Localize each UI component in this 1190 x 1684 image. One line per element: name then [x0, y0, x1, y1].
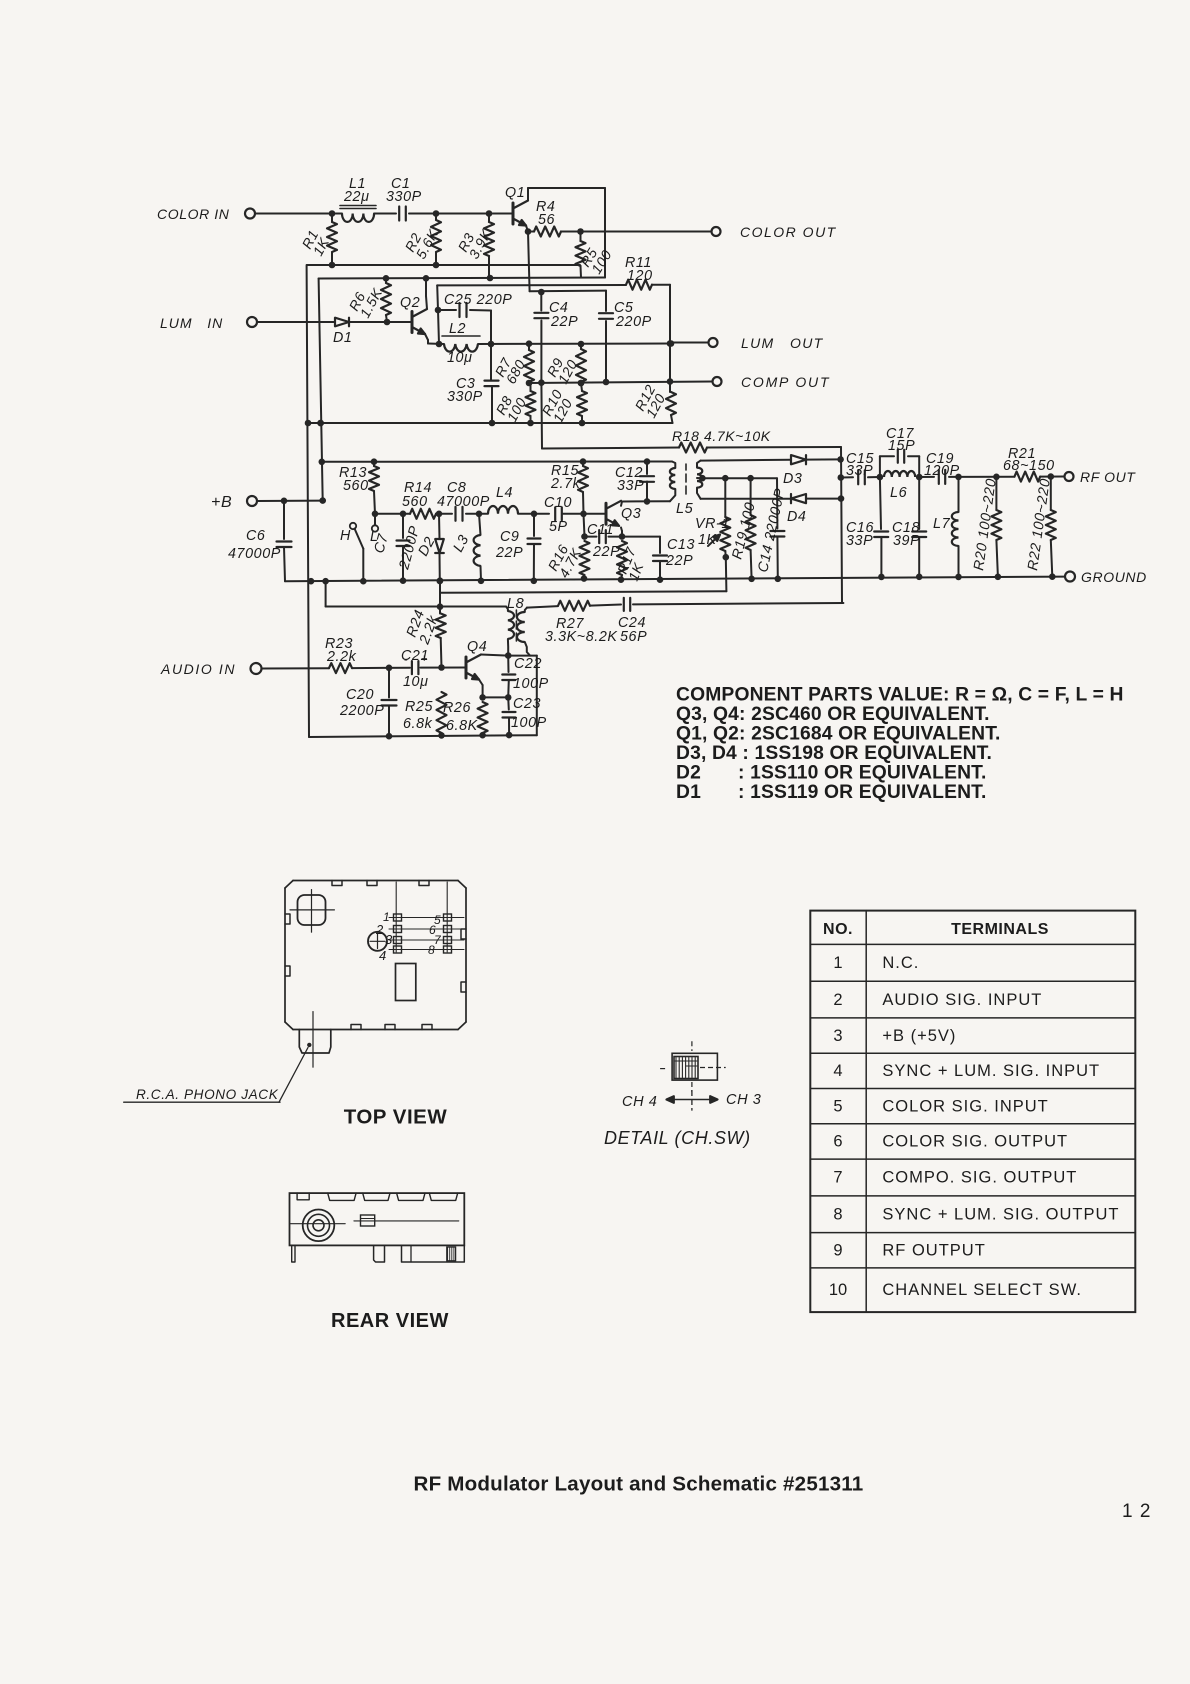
crystal crosshair — [290, 909, 334, 911]
svg-text:D1: D1 — [676, 782, 701, 803]
svg-text:8: 8 — [428, 943, 435, 957]
svg-text:N.C.: N.C. — [882, 954, 919, 972]
terminal COLOR IN — [245, 209, 255, 219]
svg-text:Q1: Q1 — [505, 185, 525, 201]
resistor R12 — [666, 392, 676, 415]
svg-text:D4: D4 — [787, 509, 806, 525]
svg-text:2: 2 — [833, 991, 842, 1009]
svg-text:COLOR OUT: COLOR OUT — [740, 224, 837, 240]
wire C4 node to R18 — [540, 383, 543, 449]
rear view center dash line — [354, 1220, 459, 1222]
capacitor C24 — [623, 598, 625, 611]
resistor R11 — [626, 280, 652, 290]
svg-text:22P: 22P — [495, 545, 523, 561]
node — [877, 474, 884, 481]
wire — [633, 603, 843, 604]
resistor R20 — [995, 477, 997, 510]
transformer L8 secondary — [525, 608, 527, 612]
svg-text:C13: C13 — [667, 537, 695, 553]
svg-text:AUDIO SIG. INPUT: AUDIO SIG. INPUT — [882, 991, 1042, 1009]
wire — [1040, 476, 1064, 478]
wire lum bias rail — [319, 278, 605, 279]
svg-text:33P: 33P — [846, 533, 873, 549]
pin pads column 5-8 — [444, 914, 452, 921]
component rectangle — [396, 964, 416, 1001]
svg-text:LUM OUT: LUM OUT — [741, 335, 824, 351]
resistor R24 — [439, 581, 441, 614]
svg-text:RF OUTPUT: RF OUTPUT — [882, 1242, 985, 1260]
svg-text:D3: D3 — [783, 471, 802, 487]
capacitor C22 — [507, 656, 509, 672]
wire — [478, 343, 671, 346]
wire top box edge — [528, 187, 605, 189]
node R13 bottom — [372, 511, 379, 518]
svg-text:AUDIO IN: AUDIO IN — [160, 661, 236, 677]
capacitor C12 — [646, 462, 648, 474]
resistor R3 — [488, 214, 490, 223]
resistor R19 — [750, 478, 752, 515]
resistor R15 — [582, 462, 584, 466]
svg-text:RF Modulator Layout and Schema: RF Modulator Layout and Schematic #25131… — [414, 1473, 864, 1496]
detail switch knob hatched — [674, 1057, 698, 1079]
diode D4 — [791, 494, 806, 503]
channel switch circle — [368, 932, 387, 951]
svg-text:C10: C10 — [544, 495, 572, 511]
capacitor C4 — [540, 292, 542, 311]
svg-text:120P: 120P — [924, 463, 960, 479]
wire audio rail — [325, 581, 327, 606]
svg-text:CH 3: CH 3 — [726, 1092, 761, 1108]
wire emitter line to LUM OUT — [428, 343, 444, 346]
svg-text:REAR VIEW: REAR VIEW — [331, 1310, 449, 1332]
inductor L1 — [342, 214, 374, 222]
svg-text:L5: L5 — [676, 501, 694, 517]
wire ground rail — [285, 577, 1065, 582]
svg-text:R.C.A. PHONO JACK: R.C.A. PHONO JACK — [136, 1087, 279, 1102]
svg-text:1 2: 1 2 — [1122, 1501, 1151, 1522]
wire VR line — [702, 477, 777, 479]
rear view top slots — [297, 1193, 309, 1200]
wire — [518, 513, 549, 515]
drawing rear view body — [290, 1193, 465, 1245]
svg-text:100P: 100P — [513, 676, 549, 692]
wire D3 branch — [701, 459, 791, 462]
potentiometer VR-1 — [724, 478, 726, 517]
svg-text:COMPO. SIG. OUTPUT: COMPO. SIG. OUTPUT — [882, 1169, 1077, 1187]
capacitor C25 bypass — [438, 310, 439, 344]
capacitor C16 — [880, 477, 881, 529]
wire Q3 emitter — [621, 528, 622, 532]
inductor L2 — [444, 344, 478, 352]
svg-text:22P: 22P — [665, 553, 693, 569]
svg-text:Q4: Q4 — [467, 639, 487, 655]
svg-text:6: 6 — [833, 1133, 842, 1151]
resistor R13 — [373, 462, 375, 466]
svg-text:2.2k: 2.2k — [326, 649, 357, 665]
diode D1 — [335, 318, 349, 327]
rear view crosshair — [291, 1223, 346, 1225]
wire Q2 emitter — [425, 334, 428, 340]
svg-text:5.6K: 5.6K — [413, 226, 442, 261]
svg-text:560: 560 — [402, 494, 428, 510]
node — [436, 511, 443, 518]
svg-text:VR-1: VR-1 — [695, 516, 730, 532]
diode D3 — [791, 455, 806, 464]
svg-text:: 1SS119 OR EQUIVALENT.: : 1SS119 OR EQUIVALENT. — [738, 782, 986, 803]
svg-text:330P: 330P — [386, 189, 422, 205]
switch channel select H-L — [350, 523, 356, 529]
svg-text:L8: L8 — [507, 596, 524, 612]
wire — [262, 667, 330, 669]
detail arrow line — [667, 1099, 718, 1101]
rca phono jack top view — [299, 1030, 331, 1054]
transformer L5 primary — [672, 462, 675, 469]
svg-text:5: 5 — [833, 1097, 842, 1115]
svg-text:6.8k: 6.8k — [403, 716, 433, 732]
rear view rca jack circles — [303, 1210, 335, 1242]
wire audio ground rail — [309, 735, 537, 737]
wire — [562, 513, 606, 515]
wire left return vertical — [307, 265, 309, 737]
svg-text:COMPONENT PARTS VALUE: R = Ω,: COMPONENT PARTS VALUE: R = Ω, C = F, L =… — [676, 685, 1124, 706]
svg-text:R25: R25 — [405, 699, 433, 715]
svg-text:56: 56 — [538, 212, 555, 228]
svg-text:COLOR SIG. OUTPUT: COLOR SIG. OUTPUT — [882, 1133, 1068, 1151]
svg-text:7: 7 — [833, 1169, 842, 1187]
rear view small detail — [361, 1215, 375, 1226]
svg-text:1K: 1K — [698, 532, 718, 548]
terminal AUDIO IN — [251, 663, 262, 674]
capacitor C1 — [398, 207, 400, 221]
svg-text:C22: C22 — [514, 656, 542, 672]
terminal LUM IN — [247, 317, 257, 327]
wire — [349, 321, 412, 323]
svg-text:COLOR SIG. INPUT: COLOR SIG. INPUT — [882, 1097, 1048, 1115]
svg-text:22P: 22P — [550, 314, 578, 330]
svg-text:47000P: 47000P — [228, 546, 281, 562]
wire — [409, 213, 513, 215]
wire — [806, 458, 841, 460]
transformer L8 primary — [506, 607, 508, 612]
crystal component square — [298, 895, 326, 925]
detail centerlines dashed — [691, 1041, 693, 1051]
svg-text:C21: C21 — [401, 648, 429, 664]
wire — [652, 284, 670, 286]
diode D2 — [438, 514, 441, 539]
svg-text:2200P: 2200P — [339, 703, 384, 719]
svg-text:GROUND: GROUND — [1081, 569, 1147, 585]
svg-text:C25 220P: C25 220P — [444, 292, 512, 308]
terminal COLOR OUT — [712, 227, 721, 236]
wire Q1 emitter drop — [528, 232, 530, 292]
svg-text:DETAIL (CH.SW): DETAIL (CH.SW) — [604, 1128, 751, 1148]
svg-text:H: H — [340, 528, 351, 544]
svg-text:39P: 39P — [893, 533, 920, 549]
wire — [257, 321, 335, 323]
svg-text:L7: L7 — [933, 516, 951, 532]
svg-text:2.7k: 2.7k — [550, 476, 581, 492]
svg-text:22P: 22P — [592, 544, 620, 560]
svg-text:33P: 33P — [846, 463, 873, 479]
svg-text:R26: R26 — [443, 700, 471, 716]
transformer L5 secondary — [697, 461, 701, 468]
node — [916, 474, 923, 481]
svg-text:15P: 15P — [888, 438, 915, 454]
svg-text:8: 8 — [833, 1206, 842, 1224]
wire Q2 collector — [426, 296, 427, 309]
wire — [374, 213, 396, 215]
svg-text:3.3K~8.2K: 3.3K~8.2K — [545, 629, 618, 645]
svg-text:9: 9 — [833, 1242, 842, 1260]
svg-text:560: 560 — [343, 478, 369, 494]
inductor L7 — [958, 477, 960, 512]
wire R27 line — [527, 606, 558, 608]
capacitor C6 — [283, 501, 285, 539]
svg-text:C6: C6 — [246, 528, 265, 544]
wire +B distribution rail — [322, 461, 672, 463]
drawing module outline top view — [293, 880, 458, 882]
wire — [508, 655, 537, 657]
terminal +B — [247, 496, 257, 506]
pin pads column 1-4 — [394, 914, 402, 921]
rear view bottom tabs — [374, 1245, 385, 1262]
wire — [590, 605, 621, 606]
svg-text:RF OUT: RF OUT — [1080, 469, 1136, 485]
wire R14 line — [375, 513, 410, 515]
svg-text:220P: 220P — [615, 314, 652, 330]
capacitor C20 — [388, 668, 390, 698]
resistor R14 — [410, 509, 436, 519]
capacitor C14 — [776, 478, 778, 528]
resistor R5 — [580, 232, 582, 242]
capacitor C15 — [841, 476, 853, 478]
resistor R8 — [526, 391, 536, 416]
resistor R16 — [584, 514, 585, 537]
capacitor C5 — [605, 291, 607, 311]
capacitor C18 — [918, 477, 920, 529]
inductor L3 — [479, 514, 481, 535]
svg-text:L4: L4 — [496, 485, 513, 501]
svg-text:L2: L2 — [449, 321, 466, 337]
svg-text:CH 4: CH 4 — [622, 1094, 657, 1110]
svg-text:47000P: 47000P — [437, 494, 490, 510]
svg-text:L3: L3 — [450, 532, 472, 555]
wire second left vertical — [319, 279, 323, 501]
svg-text:+B: +B — [211, 494, 232, 511]
svg-text:LUM IN: LUM IN — [160, 315, 223, 331]
terminal RF OUT — [1065, 472, 1074, 481]
wire Q4 emitter — [479, 680, 483, 686]
wire common rail under R1 R2 — [307, 264, 580, 266]
resistor R23 — [329, 663, 352, 673]
capacitor C9 — [533, 514, 535, 536]
svg-text:C11: C11 — [587, 522, 614, 538]
svg-text:68~150: 68~150 — [1003, 458, 1055, 474]
trap C17 L6 parallel — [879, 456, 881, 477]
wire Q1 emitter node — [526, 226, 528, 232]
resistor R27 — [558, 601, 590, 611]
wire — [466, 513, 488, 515]
capacitor C8 — [454, 507, 456, 521]
wire box right edge — [604, 188, 606, 278]
wire — [257, 500, 323, 502]
capacitor C19 — [919, 476, 934, 478]
wire lum out stub — [671, 342, 708, 344]
terminal COMP OUT — [713, 377, 722, 386]
resistor R22 — [1050, 477, 1052, 510]
capacitor C7 — [402, 514, 404, 538]
svg-text:TERMINALS: TERMINALS — [951, 921, 1049, 938]
svg-text:1: 1 — [383, 910, 390, 924]
svg-text:33P: 33P — [617, 478, 644, 494]
svg-text:1: 1 — [833, 954, 842, 972]
svg-text:3: 3 — [833, 1027, 842, 1045]
resistor R1 — [331, 214, 333, 223]
wire — [806, 498, 841, 500]
svg-text:4: 4 — [833, 1062, 842, 1080]
svg-text:6.8K: 6.8K — [446, 718, 479, 734]
capacitor C3 — [490, 344, 492, 381]
table column divider — [865, 911, 867, 1313]
wire Q4 collector line — [481, 655, 508, 656]
svg-text:Q2: Q2 — [400, 295, 420, 311]
svg-text:Q3: Q3 — [621, 506, 641, 522]
svg-text:C23: C23 — [513, 696, 541, 712]
svg-text:R18 4.7K~10K: R18 4.7K~10K — [672, 428, 771, 444]
wire — [707, 446, 841, 449]
wire — [255, 213, 342, 215]
resistor R26 — [478, 702, 488, 733]
svg-text:4: 4 — [379, 948, 387, 963]
pad columns vertical lines — [395, 882, 397, 952]
resistor R2 — [435, 214, 437, 221]
svg-text:R19 100: R19 100 — [729, 501, 759, 561]
svg-text:TOP VIEW: TOP VIEW — [344, 1106, 448, 1129]
svg-text:330P: 330P — [447, 389, 483, 405]
wire VR-1 wiper return — [725, 557, 728, 591]
wire R11 feed — [436, 285, 439, 310]
svg-text:: 1SS110 OR EQUIVALENT.: : 1SS110 OR EQUIVALENT. — [738, 763, 986, 784]
node — [955, 474, 962, 481]
terminal LUM OUT — [709, 338, 718, 347]
resistor R6 — [385, 279, 387, 284]
wire R18 line — [542, 448, 679, 449]
svg-text:10μ: 10μ — [403, 674, 429, 690]
resistor R7 — [528, 344, 530, 350]
wire D4 branch — [701, 498, 791, 500]
svg-text:D2: D2 — [676, 763, 701, 784]
transistor Q3 — [605, 503, 608, 524]
inductor L6 — [884, 471, 915, 477]
table terminals — [810, 911, 1135, 1313]
wire Q3 collector line — [621, 502, 622, 506]
svg-text:D3, D4 : 1SS198 OR EQUIVALENT.: D3, D4 : 1SS198 OR EQUIVALENT. — [676, 743, 992, 764]
wire to COLOR OUT — [581, 231, 712, 233]
svg-text:COMP OUT: COMP OUT — [741, 374, 830, 390]
svg-text:5P: 5P — [549, 519, 568, 535]
svg-text:C20: C20 — [346, 687, 374, 703]
svg-text:SYNC + LUM. SIG. OUTPUT: SYNC + LUM. SIG. OUTPUT — [882, 1206, 1119, 1224]
wire L5 tap — [697, 477, 702, 479]
svg-text:22μ: 22μ — [343, 189, 370, 205]
transistor Q1 — [512, 203, 515, 224]
svg-text:+B (+5V): +B (+5V) — [882, 1027, 956, 1045]
detail switch outer box — [672, 1053, 717, 1080]
resistor R17 — [617, 541, 627, 575]
wire — [421, 667, 467, 669]
svg-text:120: 120 — [627, 268, 653, 284]
svg-text:100P: 100P — [511, 715, 547, 731]
transistor Q2 — [411, 312, 414, 333]
svg-text:Q1, Q2: 2SC1684 OR EQUIVALENT.: Q1, Q2: 2SC1684 OR EQUIVALENT. — [676, 724, 1001, 745]
svg-text:SYNC + LUM. SIG. INPUT: SYNC + LUM. SIG. INPUT — [882, 1062, 1100, 1080]
svg-text:56P: 56P — [620, 629, 647, 645]
resistor R10 — [581, 383, 582, 391]
resistor R18 — [679, 443, 707, 453]
svg-text:L6: L6 — [890, 485, 908, 501]
capacitor C21 electrolytic — [411, 661, 413, 674]
resistor R25 — [437, 692, 447, 733]
capacitor C10 — [554, 507, 556, 520]
inductor L4 — [488, 506, 518, 514]
notch marks on outline — [332, 881, 342, 886]
svg-text:10μ: 10μ — [447, 350, 473, 366]
transformer L8 core — [515, 610, 517, 617]
resistor R9 — [580, 344, 582, 349]
svg-text:R20 100~220: R20 100~220 — [971, 477, 1000, 571]
leader line rca phono jack — [279, 1048, 308, 1103]
wire lum ground rail — [308, 422, 673, 424]
wire — [436, 513, 452, 515]
rear view left foot — [292, 1245, 295, 1262]
wire — [959, 476, 1015, 478]
svg-text:NO.: NO. — [823, 921, 853, 938]
resistor R21 — [1015, 472, 1041, 482]
wire comp-out line — [529, 382, 712, 384]
transistor Q4 — [465, 657, 468, 678]
wire — [352, 667, 410, 669]
svg-text:C9: C9 — [500, 529, 519, 545]
capacitor C23 — [507, 697, 510, 709]
svg-text:10: 10 — [829, 1281, 847, 1299]
svg-text:Q3, Q4: 2SC460 OR EQUIVALENT.: Q3, Q4: 2SC460 OR EQUIVALENT. — [676, 704, 990, 725]
svg-text:2: 2 — [375, 922, 384, 937]
svg-text:3: 3 — [385, 932, 393, 947]
terminal GROUND — [1065, 572, 1075, 582]
svg-text:COLOR IN: COLOR IN — [157, 206, 230, 222]
wire Q1 collector to box — [527, 188, 529, 201]
resistor R4 — [528, 231, 534, 233]
svg-text:D1: D1 — [333, 330, 352, 346]
capacitor C11 — [585, 536, 597, 538]
capacitor C13 — [622, 536, 660, 538]
svg-text:CHANNEL SELECT SW.: CHANNEL SELECT SW. — [882, 1281, 1082, 1299]
transformer L5 core — [685, 464, 687, 470]
node junction R4-R5 — [577, 228, 584, 235]
